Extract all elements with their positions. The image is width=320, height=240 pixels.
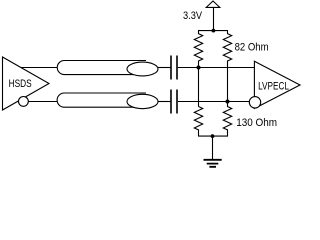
wire: left column crossing from top signal to R3 [198, 68, 200, 107]
wire: ground stub [212, 136, 214, 160]
junction dot: R2/R4 tap to bottom signal [226, 100, 230, 104]
label 3.3V [183, 10, 203, 22]
wire: right column crossing from R2 to bottom signal [227, 68, 229, 102]
transmission line T2 (bottom) end ellipse [127, 94, 158, 108]
3.3V supply arrow symbol [206, 1, 220, 7]
svg-text:LVPECL: LVPECL [258, 81, 289, 93]
wire: C2 to LVPECL inverted input (bottom rail) [178, 101, 250, 103]
label 130 Ohm [236, 117, 277, 129]
junction dot: R1/R3 tap to top signal [197, 66, 201, 70]
receiver U2 LVPECL triangle [254, 61, 300, 108]
inversion bubble on HSDS inverted output [19, 97, 29, 107]
wire: bottom rail joining resistor bottoms [198, 135, 228, 137]
svg-text:82 Ohm: 82 Ohm [235, 42, 269, 54]
svg-text:HSDS: HSDS [9, 78, 32, 90]
ground symbol [204, 160, 222, 167]
wire: top transmission line to capacitor C1 [158, 67, 171, 69]
wire: supply stub down to top rail [213, 7, 215, 30]
wire: top rail joining resistor tops [198, 30, 228, 32]
wire: C1 to LVPECL true input (top rail) [178, 67, 255, 69]
transmission line T1 (top) body [57, 61, 146, 75]
resistor R4 130 Ohm (right column, to ground) [223, 102, 231, 137]
junction dot at supply/top rail [212, 29, 216, 33]
inversion bubble on LVPECL inverted input [249, 97, 260, 108]
label LVPECL [258, 81, 289, 93]
label 82 Ohm [235, 42, 269, 54]
label HSDS [9, 78, 32, 90]
transmission line T1 (top) end ellipse [127, 62, 158, 76]
transmission line T2 (bottom) body [57, 93, 146, 107]
capacitor C1 (top coupling cap) [171, 56, 177, 80]
resistor R2 82 Ohm (right column, to 3.3V) [223, 31, 231, 68]
wire: bottom transmission line to capacitor C2 [158, 101, 171, 103]
svg-text:3.3V: 3.3V [183, 10, 203, 22]
svg-text:130 Ohm: 130 Ohm [236, 117, 277, 129]
driver U1 HSDS triangle [3, 57, 50, 110]
capacitor C2 (bottom coupling cap) [171, 90, 177, 114]
junction dot at ground stub/bottom rail [211, 134, 215, 138]
wire: HSDS inverted output to bottom transmission line [28, 101, 57, 103]
wire: HSDS true output to top transmission line [21, 67, 58, 69]
resistor R3 130 Ohm (left column, to ground) [194, 107, 202, 137]
resistor R1 82 Ohm (left column, to 3.3V) [194, 31, 202, 68]
